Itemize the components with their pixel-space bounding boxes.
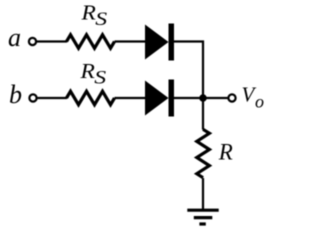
wire D2-to-Vo (174, 97, 229, 99)
svg-text:R: R (79, 59, 95, 83)
svg-text:o: o (255, 91, 264, 111)
terminal Vo (228, 94, 235, 101)
svg-text:S: S (94, 67, 106, 88)
svg-text:a: a (8, 23, 21, 52)
diode D2 (145, 80, 174, 117)
junction node (199, 94, 207, 102)
svg-text:b: b (9, 80, 22, 109)
wire RS2-to-D2 (115, 97, 147, 99)
wire R-to-ground (202, 178, 204, 210)
wire a-to-RS1 (36, 40, 67, 42)
output label V_o (242, 83, 265, 112)
resistor RS2 label R_S (79, 59, 106, 88)
svg-text:R: R (218, 140, 233, 165)
wire b-to-RS2 (37, 97, 67, 99)
terminal a (29, 38, 36, 45)
wire junction-to-R (202, 98, 204, 130)
diode D1 (145, 24, 174, 61)
resistor RS2 zigzag (67, 91, 115, 104)
svg-text:S: S (95, 8, 107, 29)
resistor RS1 zigzag (67, 35, 115, 48)
svg-text:R: R (80, 1, 96, 25)
wire D1-to-corner (174, 42, 203, 99)
ground symbol (187, 210, 218, 224)
wire RS1-to-D1 (115, 40, 147, 42)
resistor R zigzag (197, 129, 210, 177)
terminal b (29, 94, 36, 101)
resistor RS1 label R_S (80, 1, 107, 30)
